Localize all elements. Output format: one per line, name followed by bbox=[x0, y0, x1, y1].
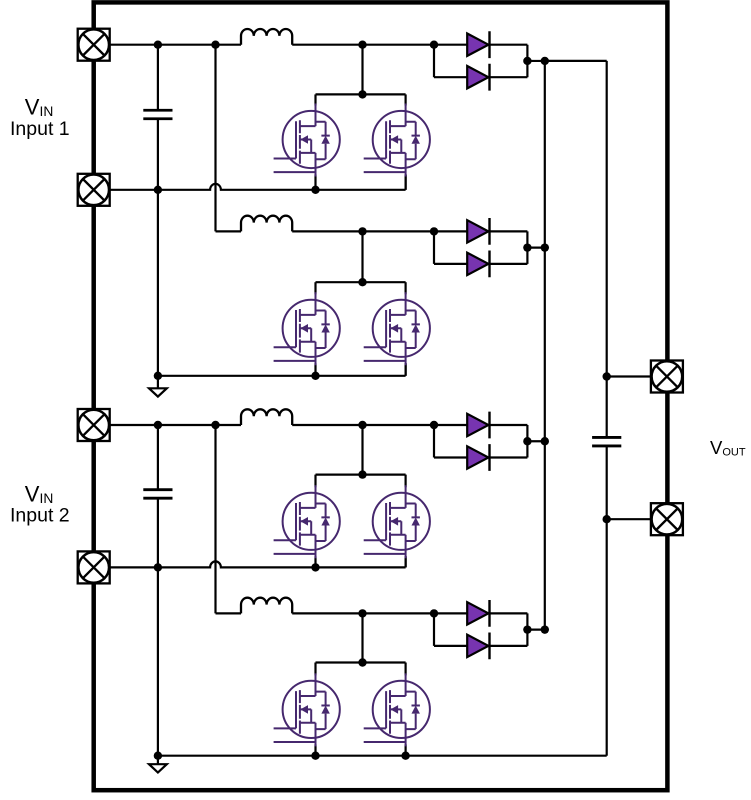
inductor L4 bbox=[241, 598, 292, 614]
wire input 1 capacitor branch bbox=[157, 45, 159, 376]
capacitor C2 (input 2) bbox=[143, 490, 172, 499]
wire drain bus feed phase 4 bbox=[316, 613, 406, 662]
wire drain lead Q3 bbox=[314, 282, 316, 294]
inductor L1 bbox=[241, 29, 292, 45]
wire source lead Q8 bbox=[405, 744, 407, 755]
input terminal VIN1+ bbox=[78, 29, 110, 61]
ground symbol 1 bbox=[149, 388, 167, 396]
wire drain lead Q2 bbox=[405, 94, 407, 105]
wire source lead Q2 bbox=[405, 175, 407, 190]
wire drain lead Q6 bbox=[405, 475, 407, 488]
input terminal VIN1- bbox=[78, 174, 110, 206]
svg-text:Input 2: Input 2 bbox=[10, 505, 70, 527]
transistor Q5 bbox=[274, 485, 340, 558]
wire source return rail phase 1 bbox=[94, 175, 406, 190]
wire drain bus feed phase 3 bbox=[316, 425, 406, 475]
wire drain bus feed phase 2 bbox=[316, 231, 406, 282]
wire ground return rail phase 4 bbox=[158, 755, 607, 757]
transistor Q6 bbox=[364, 485, 430, 558]
outer system boundary box bbox=[94, 2, 668, 790]
ground symbol 2 bbox=[149, 764, 167, 772]
wire source lead Q3 bbox=[314, 363, 316, 376]
transistor Q4 bbox=[364, 292, 430, 365]
wire drain bus feed phase 1 bbox=[316, 45, 406, 95]
wire input rail phase 3 bbox=[94, 424, 434, 426]
wire drain lead Q7 bbox=[314, 663, 316, 676]
wire ground stub 2 bbox=[157, 756, 159, 765]
inductor L3 bbox=[241, 409, 292, 425]
svg-text:Input 1: Input 1 bbox=[10, 118, 70, 140]
input terminal VIN2+ bbox=[78, 409, 110, 441]
wire input rail phase 1 bbox=[94, 44, 434, 46]
inductor L2 bbox=[241, 216, 292, 232]
capacitor C1 (input 1) bbox=[143, 110, 172, 119]
wire drain lead Q1 bbox=[314, 94, 316, 105]
wire source return rail phase 3 bbox=[94, 556, 406, 567]
wire output column bbox=[545, 61, 607, 756]
svg-text:VIN: VIN bbox=[25, 482, 54, 507]
wire main output bus bbox=[544, 61, 546, 630]
output terminal VOUT+ bbox=[651, 361, 683, 393]
wire source return rail phase 2 bbox=[158, 363, 406, 376]
wire phase 2 feed from input rail bbox=[216, 45, 435, 232]
wire source lead Q6 bbox=[405, 556, 407, 567]
svg-text:VOUT: VOUT bbox=[710, 437, 746, 459]
transistor Q2 bbox=[364, 104, 430, 177]
wire drain lead Q5 bbox=[314, 475, 316, 488]
wire to output terminal + bbox=[607, 375, 668, 377]
wire source lead Q4 bbox=[405, 363, 407, 376]
input terminal VIN2- bbox=[78, 551, 110, 583]
wire source lead Q5 bbox=[314, 556, 316, 567]
wire input 2 capacitor branch bbox=[157, 425, 159, 756]
wire source lead Q7 bbox=[314, 744, 316, 755]
wire to output terminal - bbox=[607, 518, 668, 520]
wire drain lead Q8 bbox=[405, 663, 407, 676]
wire drain lead Q4 bbox=[405, 282, 407, 294]
diode pair D1/D2 bbox=[434, 31, 549, 90]
wire ground stub 1 bbox=[157, 376, 159, 389]
transistor Q7 bbox=[274, 673, 340, 746]
output terminal VOUT- bbox=[651, 503, 683, 535]
diode pair D3/D4 bbox=[434, 218, 549, 277]
svg-text:VIN: VIN bbox=[25, 95, 54, 120]
diode pair D5/D6 bbox=[434, 412, 549, 471]
wire source lead Q1 bbox=[314, 175, 316, 190]
wire phase 4 feed from input rail bbox=[216, 425, 435, 613]
transistor Q8 bbox=[364, 673, 430, 746]
capacitor C3 (output) bbox=[592, 437, 621, 446]
diode pair D7/D8 bbox=[434, 600, 549, 659]
transistor Q3 bbox=[274, 292, 340, 365]
transistor Q1 bbox=[274, 104, 340, 177]
